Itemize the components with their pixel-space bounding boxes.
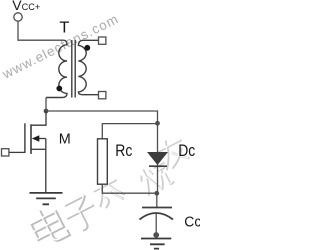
svg-text:M: M — [59, 130, 71, 147]
wire drain node to clamp corner — [46, 111, 158, 124]
node bottom rail junction dot — [154, 191, 159, 196]
watermark chinese char 发 (fa) — [87, 171, 126, 211]
ground under capacitor — [141, 239, 171, 249]
source vertical to ground — [45, 139, 47, 193]
svg-text:Rc: Rc — [115, 141, 132, 160]
resistor Rc — [98, 139, 108, 184]
watermark chinese char 友 (you) — [153, 133, 191, 171]
watermark chinese char 电 (dian) — [26, 203, 70, 249]
transformer secondary phase dot — [84, 45, 90, 51]
terminal square secondary top — [99, 37, 106, 44]
transformer primary phase dot — [56, 86, 62, 92]
svg-text:Cc: Cc — [184, 213, 200, 230]
watermark chinese char 烧 (shao) — [136, 159, 175, 197]
capacitor Cc top plate — [142, 207, 172, 209]
gate lead — [9, 151, 25, 153]
transistor arrow head — [32, 135, 40, 142]
wire clamp node to resistor — [102, 124, 157, 139]
transformer primary winding — [46, 40, 67, 97]
node clamp top junction dot — [155, 121, 160, 126]
capacitor Cc curved plate — [140, 213, 174, 220]
transistor M (MOSFET) — [9, 111, 46, 193]
wire resistor bottom to bottom rail — [102, 184, 156, 193]
node drain junction dot — [44, 109, 49, 114]
source stub — [31, 148, 46, 150]
wire Vcc to transformer primary top — [18, 21, 64, 40]
transformer secondary winding — [78, 40, 98, 94]
channel bar — [30, 124, 32, 154]
diode Dc cathode bar — [149, 165, 167, 167]
node capacitor ground dot — [153, 232, 159, 238]
svg-text:VCC+: VCC+ — [12, 0, 40, 13]
wire primary bottom to drain node — [45, 98, 47, 112]
svg-text:Dc: Dc — [178, 142, 195, 160]
diode Dc triangle — [147, 152, 168, 165]
terminal Vcc+ circle — [14, 13, 22, 21]
terminal square gate — [2, 149, 9, 156]
drain lead — [31, 111, 46, 125]
gate bar — [24, 123, 26, 153]
transformer core — [72, 40, 75, 98]
watermark chinese char 子 (zi) — [60, 193, 102, 235]
svg-text:T: T — [59, 19, 69, 36]
ground under MOSFET — [30, 193, 63, 204]
body stub with arrow — [39, 138, 46, 140]
wire bottom rail to capacitor — [156, 193, 158, 207]
wire diode branch vertical — [157, 124, 159, 194]
wire capacitor to ground — [155, 214, 157, 235]
terminal square secondary bottom — [99, 92, 106, 99]
